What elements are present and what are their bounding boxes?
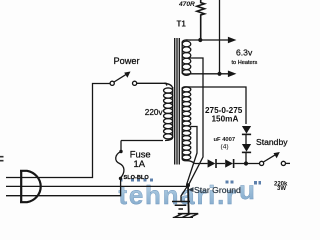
switch S1 Power	[110, 81, 114, 85]
label UF4007 (4)	[214, 137, 236, 151]
arrow heater bottom	[228, 71, 237, 78]
fuse F1 1A	[120, 141, 122, 152]
svg-text:3W: 3W	[277, 186, 286, 192]
wire star to chassis	[187, 185, 190, 213]
wire HT top to diodes	[191, 87, 247, 124]
wire heater top 6.3v	[190, 39, 230, 41]
svg-text:u: u	[239, 175, 255, 205]
svg-text:uF 4007: uF 4007	[214, 137, 236, 143]
wire heater bottom 6.3v	[190, 73, 230, 75]
svg-text:Star Ground: Star Ground	[194, 185, 241, 195]
ground earth symbol	[172, 202, 190, 210]
svg-text:SLO-BLO: SLO-BLO	[124, 175, 150, 181]
svg-text:470R: 470R	[178, 1, 195, 8]
label Fuse 1A SLO-BLO	[124, 149, 151, 182]
label 220k 3W	[274, 182, 288, 193]
wire star to earth symbol	[181, 185, 188, 201]
wire heater center tap	[188, 58, 203, 185]
junction dot heater bottom	[217, 72, 221, 76]
wire switch to primary	[137, 83, 167, 85]
transformer T1 core	[175, 38, 180, 165]
transformer T1 heater winding 6.3v	[182, 40, 191, 75]
left edge artifact marks	[0, 157, 4, 161]
svg-text:Power: Power	[114, 56, 140, 66]
wire HT center tap	[187, 127, 197, 185]
junction dot rail/diodes	[244, 161, 248, 165]
diode D3	[208, 159, 216, 167]
svg-text:to Heaters: to Heaters	[232, 60, 258, 66]
wire mains live L	[6, 84, 110, 178]
wire mains neutral N	[6, 179, 121, 196]
svg-text:(4): (4)	[221, 143, 229, 150]
ground chassis symbol	[178, 213, 198, 215]
switch S2 Standby	[260, 161, 264, 165]
mains plug P1	[20, 171, 41, 203]
label 275-0-275 150mA	[205, 106, 243, 124]
label Star Ground	[188, 187, 194, 192]
svg-text:T1: T1	[177, 20, 187, 29]
wire HT rail	[195, 163, 260, 165]
watermark specks	[120, 179, 261, 185]
junction dot resistor/heater top	[198, 38, 202, 42]
svg-text:150mA: 150mA	[212, 115, 239, 124]
svg-text:Standby: Standby	[256, 137, 288, 147]
wire mains earth E	[6, 185, 188, 187]
node star ground	[186, 183, 190, 187]
transformer T1 primary winding 220v	[164, 83, 173, 140]
diode D1	[242, 126, 251, 134]
svg-text:220v: 220v	[145, 108, 164, 117]
svg-text:6.3v: 6.3v	[236, 48, 253, 58]
label 6.3v to Heaters	[232, 48, 258, 66]
diode D2	[242, 144, 251, 152]
wire B+ drop	[219, 0, 221, 74]
resistor R1 470R	[197, 0, 205, 40]
svg-text:1A: 1A	[134, 158, 146, 169]
wire fuse to primary bottom	[121, 140, 163, 142]
arrow heater top	[228, 37, 237, 44]
transformer T1 HT winding 275-0-275	[182, 87, 194, 164]
diode D4	[225, 159, 233, 167]
